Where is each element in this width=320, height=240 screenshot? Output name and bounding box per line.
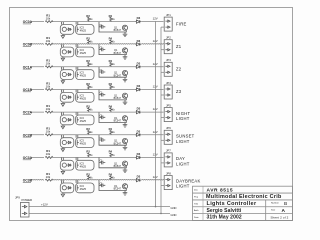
svg-text:Date: Date [194,216,199,219]
svg-text:Sheet 2 of 2: Sheet 2 of 2 [271,215,289,219]
svg-text:OC2A: OC2A [23,111,33,115]
svg-text:Lights Controller: Lights Controller [207,201,257,207]
svg-text:Proj: Proj [194,195,198,198]
svg-text:OC3A: OC3A [23,156,33,160]
svg-text:JP3: JP3 [166,58,171,62]
svg-text:OC1B: OC1B [23,88,33,92]
svg-text:JP7: JP7 [166,149,171,153]
svg-text:LIGHT: LIGHT [176,184,190,189]
svg-text:OC2B: OC2B [23,133,33,137]
svg-text:JP2: JP2 [166,36,171,40]
svg-text:A: A [282,208,286,214]
svg-text:JP9: JP9 [15,196,20,200]
svg-text:AVR 8515: AVR 8515 [207,187,234,193]
svg-text:JP6: JP6 [166,126,171,130]
svg-text:FIRE: FIRE [176,21,187,26]
svg-text:OC3B: OC3B [23,179,33,183]
svg-text:Z2: Z2 [176,67,182,72]
svg-text:JP1: JP1 [166,13,171,17]
svg-text:OC0B: OC0B [23,43,33,47]
svg-text:31th May 2002: 31th May 2002 [207,215,242,221]
svg-text:JP8: JP8 [166,171,171,175]
svg-text:Multimodal Electronic Crib: Multimodal Electronic Crib [206,194,282,200]
svg-text:JP5: JP5 [166,103,171,107]
svg-text:Number: Number [271,201,279,204]
svg-text:LIGHT: LIGHT [176,139,190,144]
svg-text:Z3: Z3 [176,89,182,94]
svg-text:JP4: JP4 [166,81,171,85]
svg-text:LIGHT: LIGHT [176,161,190,166]
svg-text:B: B [284,201,287,207]
svg-text:OC1A: OC1A [23,65,33,69]
svg-text:LIGHT: LIGHT [176,116,190,121]
svg-text:GND: GND [171,206,177,210]
svg-text:Auth: Auth [194,209,199,212]
svg-text:Sergio Salvitti: Sergio Salvitti [207,208,242,214]
svg-text:POWER: POWER [22,198,33,202]
svg-text:Z1: Z1 [176,44,182,49]
svg-text:OC0A: OC0A [23,20,33,24]
svg-text:+12V: +12V [41,202,48,206]
svg-text:GND: GND [171,213,177,217]
